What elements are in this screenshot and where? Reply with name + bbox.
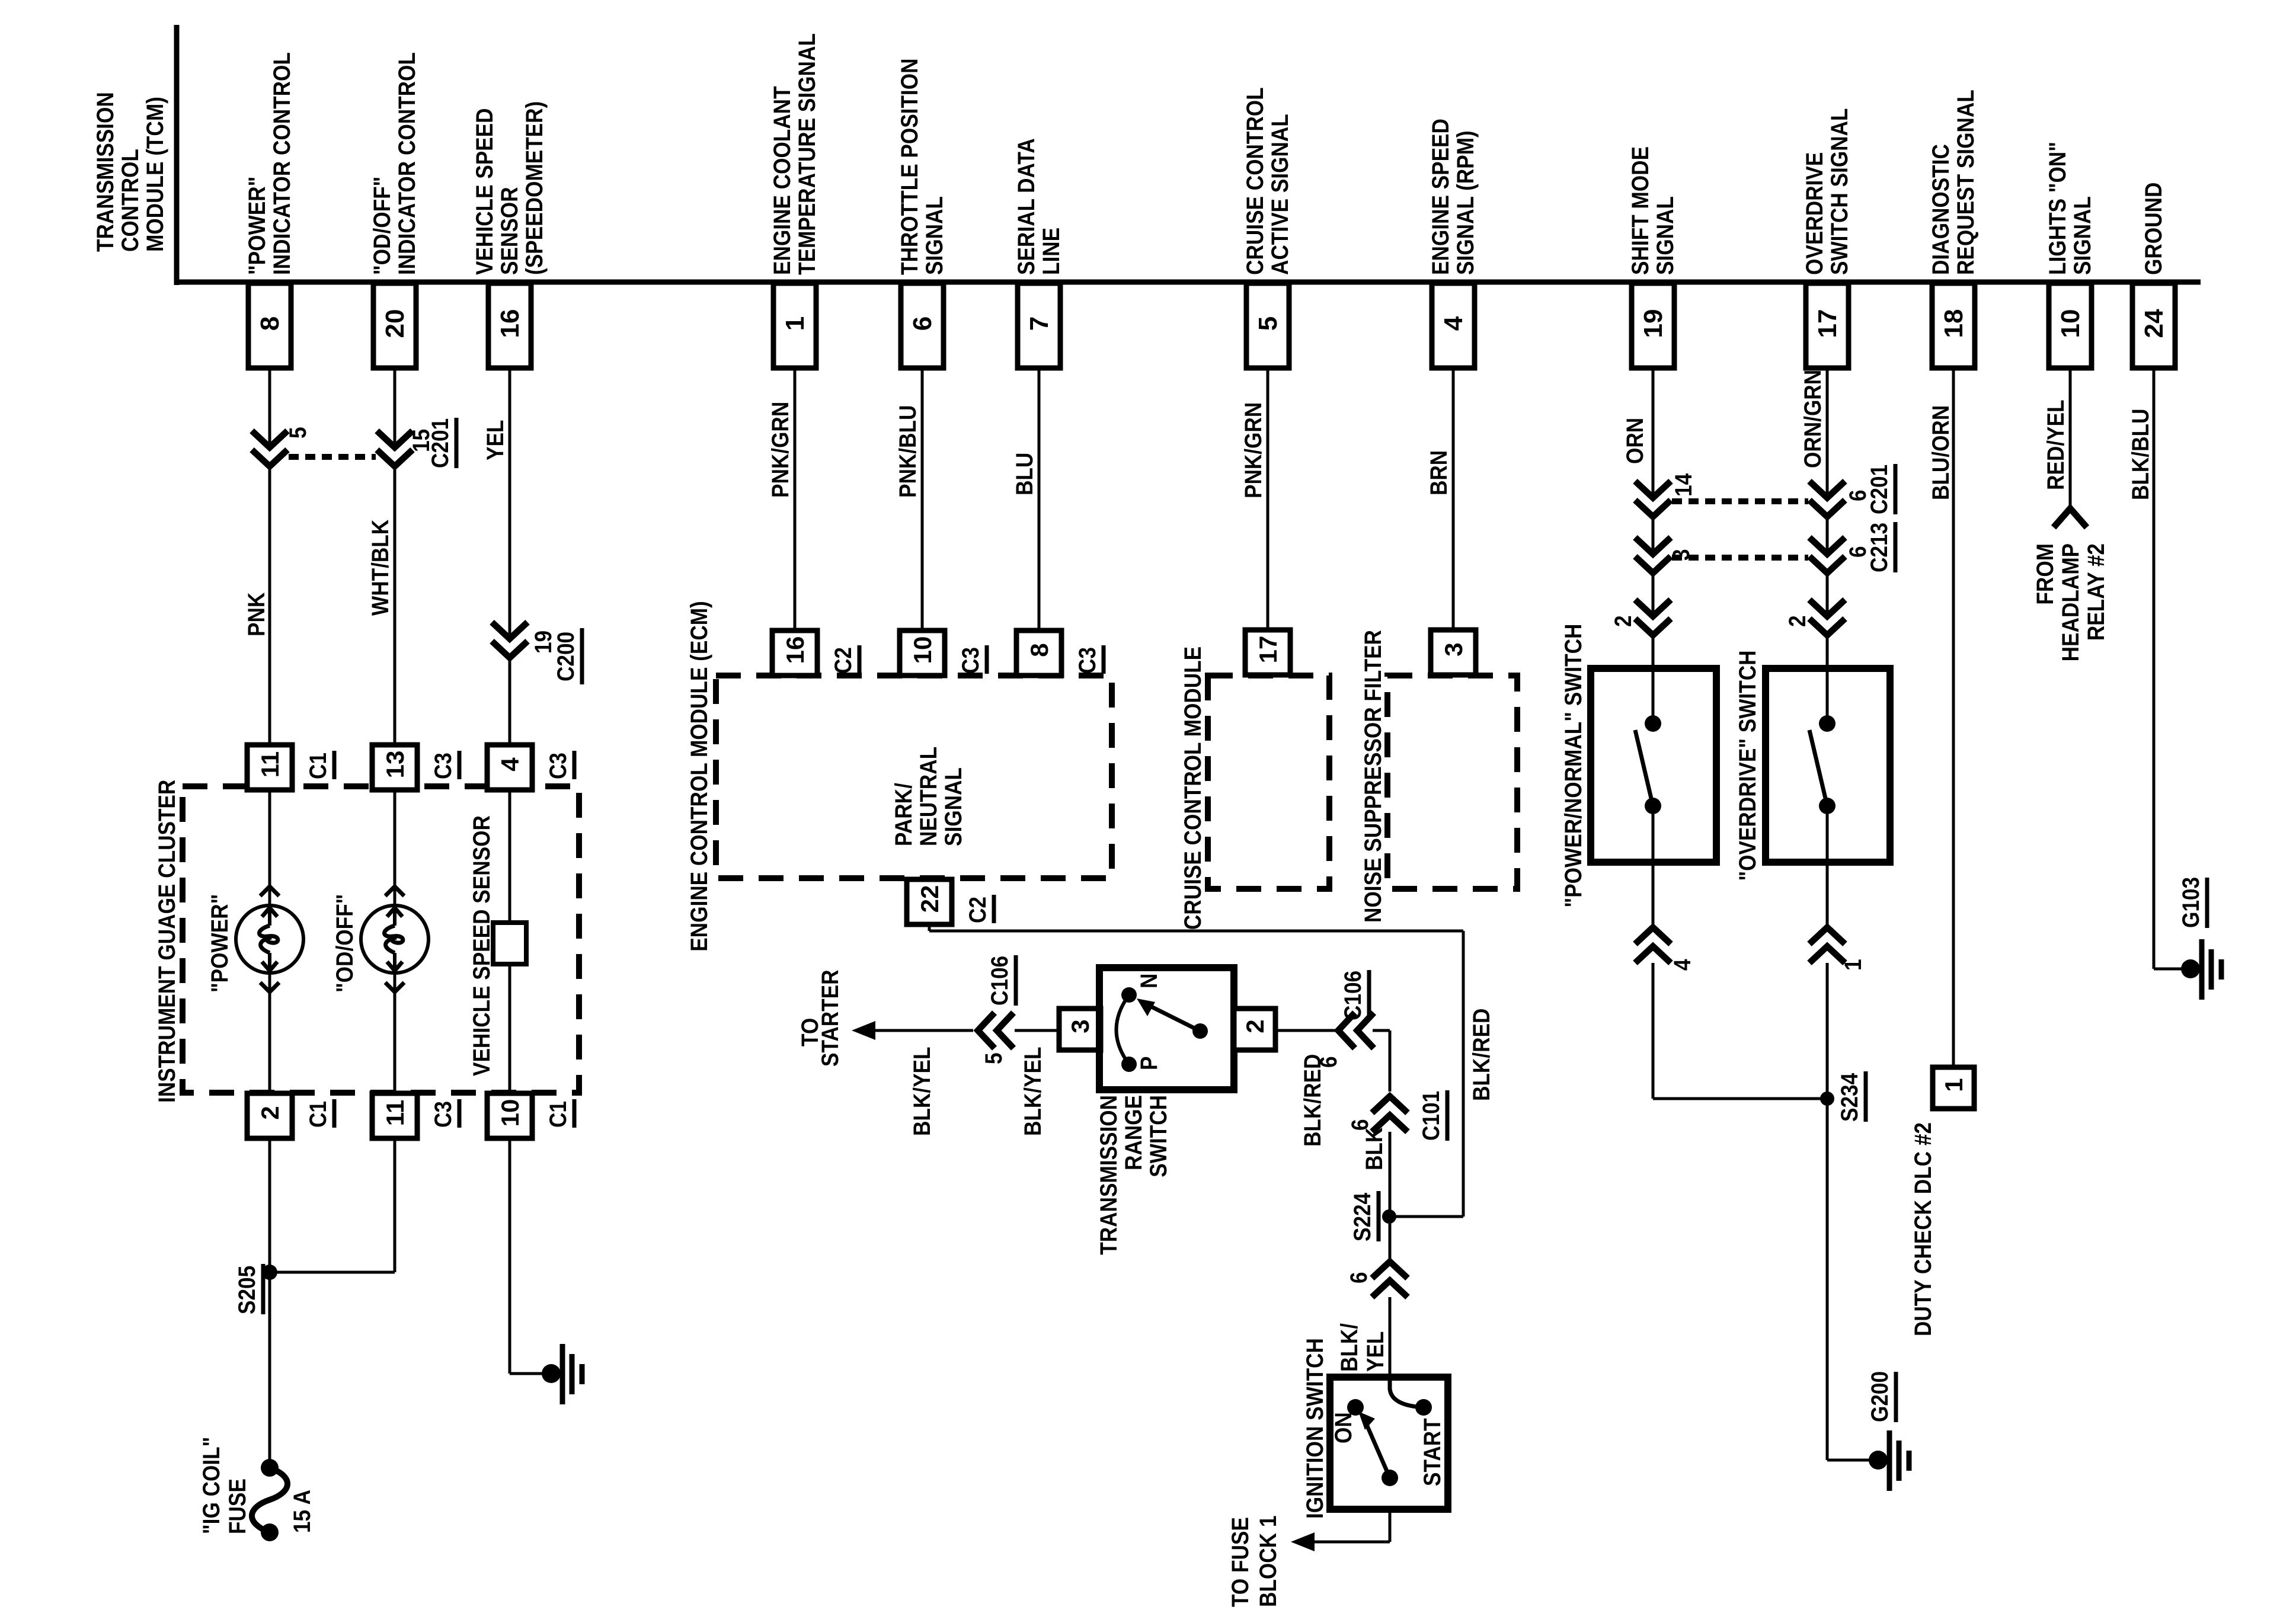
wire into power/normal switch: [1652, 635, 1655, 724]
wire C106 to corner: [1373, 1029, 1390, 1032]
dashed pair line: [1672, 498, 1808, 504]
connector pin 3: [1635, 537, 1671, 554]
wire lamp to pin 11: [394, 973, 396, 1093]
wire pin24 BLK/BLU: [2153, 368, 2156, 969]
svg-text:STARTER: STARTER: [817, 969, 843, 1067]
cruise control module dashed box: [1208, 676, 1329, 889]
TCM bus line: [174, 280, 2201, 285]
transmission range switch box: [1099, 968, 1234, 1090]
svg-text:1: 1: [1840, 959, 1866, 971]
svg-text:10: 10: [2056, 309, 2085, 338]
svg-text:2: 2: [1784, 615, 1811, 627]
svg-text:3: 3: [1440, 642, 1467, 656]
cluster pin 4 C3: [487, 745, 532, 790]
splice S205: [262, 1265, 277, 1280]
wire to POWER lamp: [268, 790, 271, 905]
wire pin22 to range switch net: [928, 924, 931, 931]
svg-text:NOISE SUPPRESSOR FILTER: NOISE SUPPRESSOR FILTER: [1360, 630, 1386, 923]
wire pin4 BRN: [1452, 368, 1455, 630]
connector C101 pin 6: [1372, 1096, 1408, 1113]
svg-text:8: 8: [255, 316, 284, 331]
TCM pin 10: [2049, 283, 2092, 368]
svg-text:C2: C2: [964, 897, 991, 923]
svg-text:CRUISE CONTROLACTIVE SIGNAL: CRUISE CONTROLACTIVE SIGNAL: [1242, 87, 1293, 275]
svg-text:PNK/GRN: PNK/GRN: [1240, 402, 1267, 498]
svg-text:24: 24: [2140, 309, 2169, 338]
svg-text:5: 5: [284, 427, 311, 438]
svg-text:BLK: BLK: [1361, 1128, 1387, 1170]
ignition switch contacts: [1390, 1377, 1424, 1407]
svg-text:19: 19: [1639, 309, 1668, 338]
cluster pin 10 C1: [487, 1093, 532, 1138]
svg-text:8: 8: [1025, 643, 1053, 657]
svg-text:10: 10: [496, 1099, 524, 1127]
svg-text:4: 4: [1669, 959, 1696, 971]
wire S224 to connector: [1389, 1217, 1392, 1262]
noise pin 3: [1431, 630, 1476, 675]
svg-text:C106: C106: [986, 956, 1013, 1006]
svg-text:17: 17: [1813, 309, 1842, 338]
svg-text:2: 2: [1241, 1019, 1269, 1033]
svg-text:P: P: [1136, 1057, 1162, 1070]
svg-text:22: 22: [916, 885, 944, 913]
svg-text:YEL: YEL: [482, 420, 509, 460]
ground G200: [1869, 1451, 1888, 1470]
wire pin2 to C106: [1275, 1029, 1338, 1032]
svg-text:VEHICLE SPEED SENSOR: VEHICLE SPEED SENSOR: [468, 815, 495, 1076]
wire lamp to pin 2: [268, 973, 271, 1093]
svg-text:DUTY CHECK DLC #2: DUTY CHECK DLC #2: [1910, 1122, 1936, 1336]
connector C200 pin 19: [492, 622, 527, 639]
svg-text:BLK/BLU: BLK/BLU: [2127, 409, 2154, 500]
svg-text:CRUISE CONTROL MODULE: CRUISE CONTROL MODULE: [1179, 646, 1206, 930]
splice S224: [1382, 1209, 1396, 1224]
wire below switch: [1652, 862, 1655, 927]
svg-text:2: 2: [256, 1106, 284, 1119]
TCM pin 16: [488, 283, 531, 368]
connector C213 pin 6: [1809, 537, 1845, 554]
wire in switch: [1826, 806, 1829, 862]
svg-text:C3: C3: [430, 753, 456, 779]
wire to OD/OFF lamp: [394, 790, 396, 905]
wire in switch: [1652, 806, 1655, 862]
svg-text:WHT/BLK: WHT/BLK: [367, 520, 394, 616]
wire WHT/BLK: [394, 466, 396, 745]
wire pin17 ORN/GRN: [1826, 368, 1829, 493]
svg-text:C200: C200: [552, 632, 579, 681]
svg-text:1: 1: [1940, 1078, 1968, 1092]
lamp OD/OFF: [361, 905, 428, 973]
svg-text:PNK/GRN: PNK/GRN: [767, 402, 794, 498]
wire to fuse block: [1389, 1509, 1392, 1542]
wire TO STARTER: [873, 1029, 973, 1032]
cluster pin 13 C3: [372, 745, 417, 790]
connector C201 pin 6: [1809, 481, 1845, 498]
svg-text:S205: S205: [234, 1266, 260, 1314]
svg-text:IGNITION SWITCH: IGNITION SWITCH: [1302, 1338, 1328, 1519]
svg-text:S234: S234: [1836, 1073, 1863, 1122]
connector pin 4: [1635, 927, 1671, 944]
TCM pin 24: [2132, 283, 2175, 368]
svg-text:ON: ON: [1330, 1412, 1357, 1443]
ECM pin 8 C3: [1016, 630, 1061, 676]
TCM pin 1: [773, 283, 816, 368]
svg-text:C1: C1: [305, 1101, 331, 1128]
fuse IG COIL 15A: [261, 1459, 279, 1477]
svg-text:4: 4: [496, 757, 524, 772]
svg-text:BLK/RED: BLK/RED: [1299, 1054, 1326, 1147]
TCM pin 5: [1246, 283, 1289, 368]
svg-text:C213: C213: [1866, 523, 1892, 572]
svg-text:"OVERDRIVE" SWITCH: "OVERDRIVE" SWITCH: [1734, 650, 1761, 881]
connector pin 1: [1809, 927, 1845, 944]
connector pin 6 (ignition): [1372, 1262, 1408, 1278]
wire pin1 PNK/GRN: [794, 368, 797, 630]
svg-text:C2: C2: [830, 647, 856, 674]
connector C106 pin 5: [978, 1013, 994, 1048]
wire pin10 RED/YEL: [2069, 368, 2072, 508]
wire: [1652, 514, 1655, 549]
svg-text:RED/YEL: RED/YEL: [2042, 400, 2069, 490]
wire: [1826, 571, 1829, 612]
ECM pin 16 C2: [772, 630, 817, 676]
wire pin8 to C201 connector: [268, 368, 271, 443]
ECM pin 22 C2: [907, 879, 952, 924]
wire into overdrive switch: [1826, 635, 1829, 724]
svg-text:3: 3: [1066, 1019, 1094, 1033]
svg-text:C1: C1: [545, 1101, 571, 1128]
wire: [1652, 571, 1655, 612]
power/normal switch box: [1591, 668, 1716, 862]
connector half C201 pin 5: [252, 431, 287, 447]
connector pin 2: [1809, 600, 1845, 616]
svg-text:ORN/GRN: ORN/GRN: [1799, 370, 1826, 468]
TCM pin 6: [901, 283, 944, 368]
svg-text:G200: G200: [1866, 1371, 1893, 1422]
wire pin5 PNK/GRN: [1267, 368, 1269, 630]
svg-text:15 A: 15 A: [289, 1490, 315, 1533]
dashed pair line C201: [289, 454, 376, 460]
svg-text:5: 5: [1253, 316, 1283, 331]
svg-text:"OD/OFF": "OD/OFF": [331, 894, 358, 993]
from-arrow (half arrow): [2054, 508, 2087, 527]
svg-text:11: 11: [381, 1100, 409, 1126]
range switch pin 2: [1234, 1009, 1275, 1050]
TCM pin 18: [1932, 283, 1975, 368]
wire sensor to pin 10: [509, 964, 511, 1093]
wire pin18 BLU/ORN: [1952, 368, 1955, 1067]
range switch contacts: [1121, 987, 1137, 1003]
cluster pin 11 C3: [372, 1093, 417, 1138]
splice S234: [1820, 1092, 1834, 1106]
wire to ignition switch: [1389, 1297, 1392, 1377]
TCM pin 17: [1806, 283, 1849, 368]
TCM pin 4: [1432, 283, 1475, 368]
wire pin2 to S205: [268, 1138, 271, 1272]
TCM pin 20: [373, 283, 416, 368]
wire to S234: [1652, 963, 1655, 1099]
TCM pin 8: [248, 283, 291, 368]
svg-text:C3: C3: [545, 753, 571, 779]
svg-text:C3: C3: [957, 647, 984, 674]
svg-text:S224: S224: [1349, 1193, 1376, 1241]
TCM module left rail: [174, 25, 180, 285]
svg-text:C201: C201: [427, 418, 453, 468]
svg-text:"POWER/NORMAL" SWITCH: "POWER/NORMAL" SWITCH: [1560, 624, 1587, 908]
svg-text:G103: G103: [2177, 877, 2204, 928]
ground (sensor): [542, 1364, 561, 1383]
svg-text:20: 20: [380, 309, 410, 338]
wire pin4 to sensor: [509, 790, 511, 923]
lamp POWER: [236, 905, 303, 973]
svg-text:BRN: BRN: [1425, 450, 1452, 495]
svg-text:BLK/YEL: BLK/YEL: [909, 1046, 935, 1136]
svg-text:C3: C3: [1074, 647, 1101, 674]
wire C200 to pin 4: [509, 658, 511, 745]
svg-text:N: N: [1136, 974, 1162, 988]
connector C106 pin 6 (right): [1338, 1013, 1355, 1048]
svg-text:GROUND: GROUND: [2140, 183, 2167, 275]
svg-text:16: 16: [495, 309, 525, 338]
noise suppressor filter dashed box: [1387, 676, 1517, 889]
wire pin11 to S205 branch: [394, 1138, 396, 1272]
ECM dashed box: [716, 676, 1112, 878]
svg-text:BLK/YEL: BLK/YEL: [1019, 1046, 1046, 1136]
svg-text:13: 13: [381, 751, 409, 779]
svg-text:2: 2: [1610, 615, 1636, 627]
cluster pin 2 C1: [247, 1093, 292, 1138]
wire pin6 PNK/BLU: [921, 368, 924, 630]
svg-text:ENGINE CONTROL MODULE (ECM): ENGINE CONTROL MODULE (ECM): [686, 601, 712, 952]
TCM pin 7: [1018, 283, 1060, 368]
connector pin 2: [1635, 600, 1671, 616]
svg-text:11: 11: [256, 751, 284, 777]
svg-text:1: 1: [781, 316, 810, 331]
wire pin10 to ground: [509, 1138, 511, 1374]
wire PNK: [268, 466, 271, 745]
svg-text:C101: C101: [1418, 1091, 1444, 1141]
svg-text:C106: C106: [1339, 971, 1366, 1020]
connector C201 pin 15: [377, 431, 412, 447]
svg-text:7: 7: [1025, 316, 1054, 331]
svg-text:BLK/RED: BLK/RED: [1468, 1009, 1495, 1101]
ground G103: [2181, 959, 2200, 978]
duty check DLC pin 1: [1933, 1067, 1974, 1109]
svg-text:PNK: PNK: [243, 593, 270, 636]
overdrive switch box: [1766, 668, 1890, 862]
wire S205 to fuse: [268, 1272, 271, 1468]
wire pin19 ORN: [1652, 368, 1655, 493]
connector pin 14: [1635, 481, 1671, 498]
svg-text:18: 18: [1939, 309, 1968, 338]
svg-text:14: 14: [1670, 473, 1697, 497]
svg-text:INSTRUMENT GUAGE CLUSTER: INSTRUMENT GUAGE CLUSTER: [154, 780, 180, 1103]
svg-text:"POWER": "POWER": [206, 894, 233, 993]
wire pin7 BLU: [1038, 368, 1041, 630]
ECM pin 10 C3: [900, 630, 945, 676]
svg-text:ORN: ORN: [1622, 418, 1648, 464]
range switch pin 3: [1059, 1009, 1101, 1050]
svg-text:ENGINE SPEEDSIGNAL (RPM): ENGINE SPEEDSIGNAL (RPM): [1427, 119, 1479, 275]
svg-text:C3: C3: [430, 1101, 456, 1128]
cruise pin 17: [1245, 630, 1290, 675]
power/normal switch contacts: [1645, 715, 1661, 732]
instrument guage cluster box: [183, 786, 579, 1093]
svg-text:BLU/ORN: BLU/ORN: [1927, 405, 1954, 500]
cluster pin 11 C1: [247, 745, 292, 790]
wire below switch: [1826, 862, 1829, 927]
overdrive switch contacts: [1819, 715, 1835, 732]
wire C101 to S224: [1389, 1132, 1392, 1217]
svg-text:START: START: [1419, 1418, 1446, 1486]
svg-text:C201: C201: [1866, 465, 1892, 514]
wire to S234 and G200: [1826, 963, 1829, 1460]
svg-text:10: 10: [909, 636, 936, 664]
svg-text:C1: C1: [305, 753, 331, 779]
svg-text:6: 6: [908, 316, 937, 331]
svg-text:5: 5: [980, 1052, 1007, 1064]
ignition switch box: [1330, 1377, 1448, 1509]
vehicle speed sensor element: [493, 923, 526, 964]
svg-text:6: 6: [1345, 1272, 1372, 1283]
TCM pin 19: [1632, 283, 1674, 368]
svg-text:4: 4: [1439, 316, 1468, 331]
wire to ground G200: [1827, 1459, 1878, 1462]
svg-text:17: 17: [1254, 636, 1282, 664]
dashed pair line: [1672, 555, 1808, 561]
wire pin20 to C201: [394, 368, 396, 443]
svg-text:BLU: BLU: [1011, 453, 1038, 495]
svg-text:16: 16: [781, 636, 809, 664]
svg-text:PNK/BLU: PNK/BLU: [894, 405, 921, 498]
wire: [1826, 514, 1829, 549]
wire pin16 YEL: [509, 368, 511, 634]
